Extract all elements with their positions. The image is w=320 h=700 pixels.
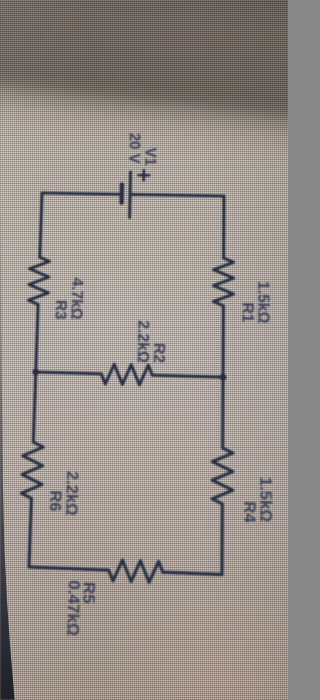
battery V1 short plate: [119, 184, 124, 202]
wire bottom rail left segment: [40, 193, 42, 257]
resistor R6: [21, 442, 43, 499]
svg-text:4.7kΩ: 4.7kΩ: [67, 277, 85, 319]
wire middle branch upper: [152, 375, 223, 377]
wire top rail left segment: [222, 196, 225, 258]
svg-text:2.2kΩ: 2.2kΩ: [62, 471, 81, 516]
svg-text:20 V: 20 V: [125, 133, 142, 164]
wire right branch lower: [29, 567, 109, 570]
resistor R5: [108, 560, 163, 583]
svg-text:1.5kΩ: 1.5kΩ: [256, 477, 274, 523]
svg-text:2.2kΩ: 2.2kΩ: [133, 320, 151, 363]
battery plus sign: [138, 170, 149, 180]
svg-text:R1: R1: [238, 302, 256, 323]
resistor R2: [101, 364, 153, 385]
resistor R4: [212, 448, 233, 505]
battery V1 long plate: [128, 172, 132, 218]
wire bottom rail middle segment: [33, 304, 38, 442]
wire battery top lead: [132, 194, 224, 196]
svg-text:0.47kΩ: 0.47kΩ: [62, 580, 82, 637]
svg-text:R6: R6: [45, 490, 63, 512]
wire top rail middle segment: [221, 306, 225, 448]
wire top rail right segment: [221, 504, 224, 575]
svg-text:R3: R3: [51, 300, 69, 320]
svg-text:V1: V1: [141, 147, 158, 165]
wire right branch upper: [163, 572, 222, 574]
junction dot top of R2 branch: [220, 374, 227, 381]
svg-text:1.5kΩ: 1.5kΩ: [254, 281, 272, 324]
wire battery bottom lead: [42, 193, 120, 194]
svg-text:R4: R4: [239, 501, 257, 524]
wire middle branch lower: [36, 372, 101, 374]
junction dot bottom of R2 branch: [32, 369, 39, 376]
svg-text:R2: R2: [150, 343, 168, 364]
resistor R3: [28, 257, 49, 305]
resistor R1: [213, 258, 233, 306]
screen bezel edge: [0, 0, 24, 700]
wire bottom rail right segment: [29, 498, 31, 567]
